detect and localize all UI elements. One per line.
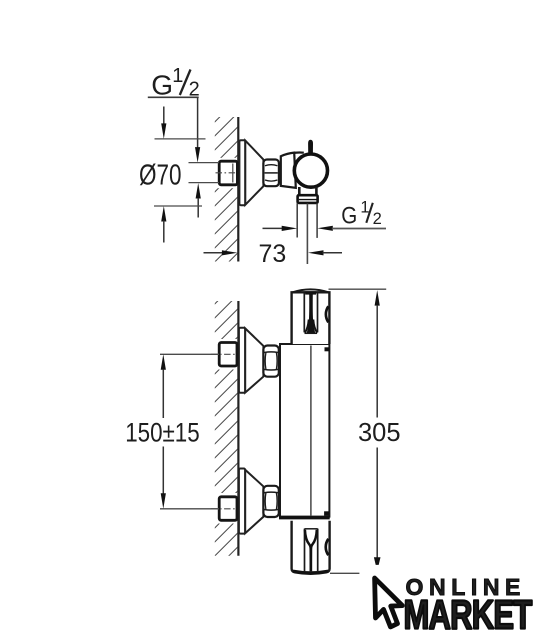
lower supply nipple: [219, 497, 237, 521]
lower escutcheon base plate: [239, 469, 245, 534]
bottom handle: [292, 521, 330, 574]
305 dimension line + arrows: [375, 290, 380, 306]
union nut (top view): [263, 160, 279, 187]
up arrow to nipple bottom: [196, 183, 201, 199]
top handle grip groove: [303, 292, 305, 333]
73 dimension: [204, 252, 224, 254]
upper nipple centerline: [211, 353, 236, 355]
svg-text:1: 1: [172, 65, 183, 87]
svg-text:150±15: 150±15: [125, 417, 200, 447]
small detail square on body: [325, 347, 330, 351]
hose centerline: [306, 204, 308, 265]
wall face line (top view): [237, 117, 239, 262]
lower escutcheon cone: [245, 470, 263, 533]
body bottom thick edge: [279, 516, 330, 519]
shower hose lines: [296, 203, 298, 237]
upper union nut: [263, 346, 278, 377]
top handle grip mark (black): [305, 291, 316, 294]
knob on top of handle: [308, 140, 313, 154]
bottom handle bottom dark band: [293, 571, 328, 573]
extension lines escutcheon top/bottom: [155, 138, 206, 140]
G 1/2 dimension line + arrows (hose): [263, 227, 283, 229]
150±15 dimension arrows: [161, 354, 166, 370]
svg-text:Ø70: Ø70: [139, 159, 182, 191]
main body: [280, 344, 329, 517]
wall clearing behind lower nipple: [214, 493, 239, 524]
wall clearing behind union nipple: [214, 158, 239, 188]
escutcheon cone (top view): [245, 141, 263, 205]
svg-text:305: 305: [358, 419, 401, 447]
bottom handle side button arc: [326, 539, 329, 555]
hose nut flange: [298, 195, 318, 203]
escutcheon base plate (top view): [239, 140, 245, 205]
body inner edge line: [310, 346, 312, 516]
bottom handle grip groove: [304, 529, 306, 572]
supply nipple behind wall (top view): [219, 161, 237, 185]
svg-text:2: 2: [373, 210, 382, 228]
svg-text:G: G: [151, 70, 173, 101]
lower nipple centerline: [211, 508, 236, 510]
outlet neck below handle: [299, 187, 316, 195]
lower union nut: [263, 486, 278, 517]
G 1/2 leader underline (top left): [148, 96, 199, 98]
top handle: [292, 292, 330, 344]
upper escutcheon base plate: [239, 328, 245, 393]
wall hatching (front view): [215, 301, 238, 556]
cursor arrow: [375, 578, 403, 627]
upper escutcheon cone: [245, 328, 263, 392]
valve body cone (top view): [281, 153, 296, 188]
nipple centerline (dash-dot): [216, 172, 237, 174]
Ø70 dimension arrows: [163, 107, 165, 125]
svg-text:73: 73: [259, 240, 287, 268]
bottom handle grip mark (black): [305, 530, 311, 571]
top handle cap dome: [292, 289, 329, 292]
svg-text:MARKET: MARKET: [404, 591, 533, 637]
upper supply nipple: [219, 343, 237, 367]
150±15 extension lines: [160, 353, 219, 355]
wall clearing behind upper nipple: [214, 339, 239, 370]
thermostat handle circle (top view): [294, 154, 327, 187]
305 extension lines: [329, 288, 387, 290]
wall hatching (top view): [215, 117, 238, 262]
extension lines nipple top/bottom: [189, 162, 220, 164]
top handle side button arc: [326, 306, 329, 322]
svg-text:G: G: [341, 202, 357, 229]
leader drop line with arrow to nipple top: [197, 97, 199, 148]
wall face line (front view): [237, 301, 239, 556]
